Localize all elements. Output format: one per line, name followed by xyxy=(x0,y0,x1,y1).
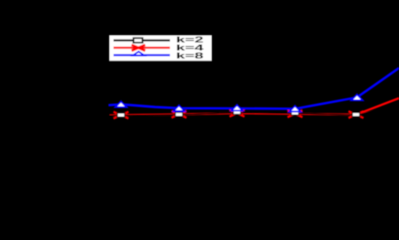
svg-text:k=8: k=8 xyxy=(176,51,204,61)
